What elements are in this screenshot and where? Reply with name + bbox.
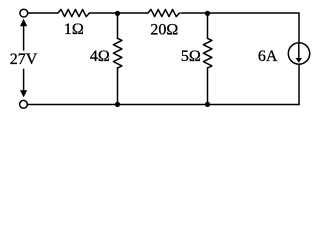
svg-text:6A: 6A [258,48,278,65]
svg-text:27V: 27V [10,51,38,68]
svg-text:20Ω: 20Ω [150,22,178,39]
svg-text:5Ω: 5Ω [181,48,201,65]
svg-text:4Ω: 4Ω [90,48,110,65]
svg-text:1Ω: 1Ω [64,21,84,38]
